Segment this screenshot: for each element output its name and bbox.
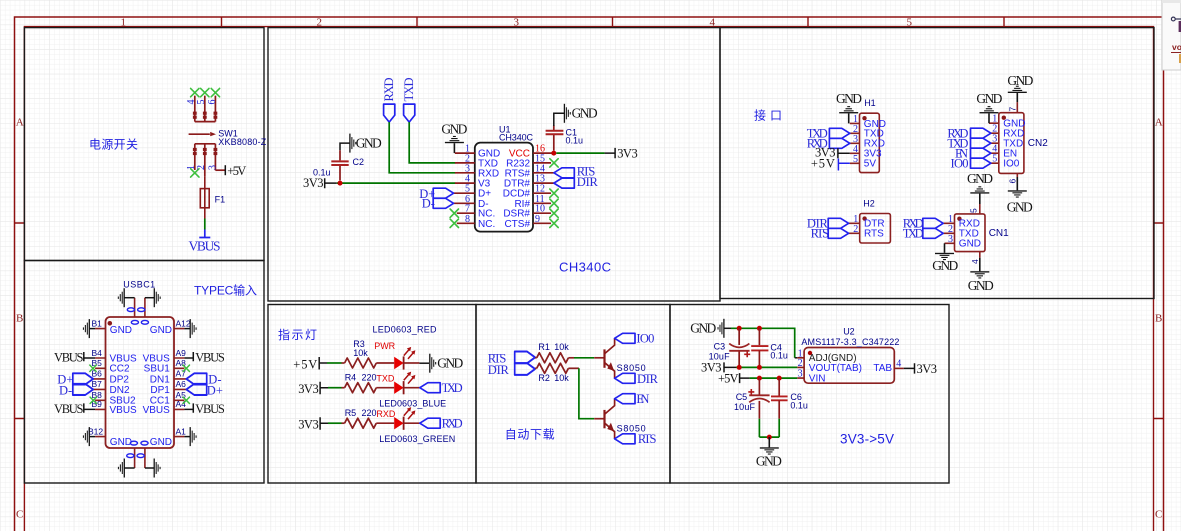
wire VCC to 3V3: [556, 152, 604, 154]
U1 left pin stubs: [454, 153, 475, 223]
svg-text:VIN: VIN: [809, 373, 826, 384]
switch pin 5 no-connect X: [201, 88, 209, 96]
right pin stubs: [174, 329, 186, 437]
port flag RXD at H1 pin3: [829, 138, 849, 148]
port flag IO0 at CN2 pin5: [971, 158, 991, 168]
block border TYPEC输入: [24, 261, 264, 484]
svg-text:VBUS: VBUS: [189, 239, 221, 254]
svg-text:B4: B4: [92, 348, 103, 358]
svg-text:TXD: TXD: [402, 78, 416, 102]
svg-text:GND: GND: [959, 239, 981, 250]
USBC1 bottom pad ovals: [127, 441, 148, 457]
CN2 pin1 dot: [1002, 116, 1006, 120]
resistor R5: [342, 422, 345, 424]
svg-text:F1: F1: [215, 195, 226, 205]
svg-text:CN1: CN1: [989, 228, 1009, 239]
ground flag B1: [83, 319, 90, 338]
svg-text:220: 220: [362, 408, 377, 418]
svg-text:+5V: +5V: [718, 371, 739, 385]
USBC1 top shield pins: [135, 298, 145, 317]
wire 3V3 to U1 pin4: [337, 182, 456, 184]
ground flag bottom-right: [154, 459, 161, 478]
svg-text:GND: GND: [836, 91, 862, 106]
port flag RTS at H2 pin2: [828, 228, 848, 238]
port flag RTS at U1 pin14: [554, 168, 574, 178]
svg-text:LED0603_BLUE: LED0603_BLUE: [379, 398, 446, 408]
CN2 top pin 7: [1016, 102, 1018, 113]
netlabel VBUS: [199, 230, 210, 238]
wire R4 to LED2: [376, 387, 394, 389]
svg-text:2: 2: [196, 165, 207, 170]
no-connect X A8: [183, 365, 189, 371]
H2 pin1 dot: [862, 216, 866, 220]
A1 wire to ground: [184, 436, 190, 438]
svg-text:3V3: 3V3: [298, 418, 319, 432]
wire TXD to U1 pin2: [409, 122, 455, 163]
svg-text:GND: GND: [110, 437, 132, 448]
capacitor C3 polarized: [738, 328, 740, 345]
no-connect X B5: [90, 365, 96, 371]
svg-text:CTS#: CTS#: [504, 219, 530, 230]
port flag EN at Q2 collector: [615, 394, 635, 404]
svg-text:VBUS: VBUS: [143, 405, 171, 416]
svg-text:3: 3: [514, 17, 520, 29]
junction C3 bottom: [737, 365, 742, 370]
netflag +5V: [224, 165, 226, 175]
svg-text:IO0: IO0: [1003, 159, 1020, 170]
block border 自动下载: [476, 305, 670, 484]
port flag D+ at B6: [73, 373, 93, 384]
port flag DTR at H2 pin1: [828, 218, 848, 228]
svg-text:GND: GND: [437, 356, 463, 371]
H2 pin stubs: [849, 223, 860, 233]
port flag RXD at CN1 pin1: [923, 218, 943, 228]
svg-text:VBUS: VBUS: [54, 402, 84, 416]
switch SW1 contact pads: [193, 112, 217, 155]
svg-text:AMS1117-3.3_C347222: AMS1117-3.3_C347222: [801, 337, 899, 347]
port flag TXD row2: [420, 383, 440, 393]
panel body: [1162, 0, 1181, 70]
svg-text:A: A: [1155, 117, 1163, 129]
svg-text:GND: GND: [690, 320, 716, 335]
panel icon circle-line: [1171, 17, 1175, 21]
svg-text:RXD: RXD: [376, 409, 396, 419]
svg-text:R4: R4: [345, 373, 357, 383]
frame zone ticks left: [15, 223, 25, 419]
wire R3 to LED1: [376, 362, 394, 364]
svg-text:XKB8080-Z: XKB8080-Z: [218, 137, 266, 147]
ground flag CN1 pin3: [935, 253, 954, 260]
svg-text:+5V: +5V: [811, 156, 835, 170]
wire R5 to LED3: [376, 422, 394, 424]
U1 right pin stubs: [533, 153, 554, 223]
wire F1 to VBUS: [204, 219, 206, 230]
netflag VBUS at A9: [184, 352, 193, 361]
ground flag top-right: [154, 288, 161, 307]
svg-text:8: 8: [465, 214, 470, 225]
resistor R1: [535, 357, 537, 359]
svg-text:IO0: IO0: [636, 332, 654, 346]
junction C6 top: [777, 376, 782, 381]
CN2 bottom pin 6: [1016, 173, 1018, 177]
svg-text:5: 5: [853, 154, 858, 165]
CN1 pin stubs: [943, 223, 954, 243]
resistor R4: [342, 387, 345, 389]
svg-text:GND: GND: [976, 91, 1002, 106]
netflag 3V3 right: [605, 148, 616, 158]
port flag D+ at A6: [186, 384, 206, 395]
svg-text:C: C: [16, 509, 23, 521]
svg-text:B1: B1: [92, 318, 103, 328]
svg-text:VBUS: VBUS: [54, 351, 84, 365]
svg-text:TXD: TXD: [376, 374, 395, 384]
no-connect X U1 pin8: [450, 219, 458, 227]
ground flag CN2 top: [1008, 86, 1027, 93]
netflag VBUS at A4: [184, 403, 193, 412]
svg-text:+5V: +5V: [293, 358, 317, 372]
CN2 pin stubs left: [989, 123, 999, 163]
svg-text:220: 220: [362, 373, 377, 383]
wire +5V to R3: [327, 362, 342, 364]
ground flag CN2 bottom: [1008, 190, 1027, 197]
svg-text:5V: 5V: [864, 159, 877, 170]
svg-text:DTR: DTR: [637, 372, 659, 386]
svg-text:DP2: DP2: [110, 374, 130, 385]
svg-text:D-: D-: [422, 196, 435, 210]
no-connect X B8: [90, 397, 96, 403]
svg-text:2: 2: [317, 17, 323, 29]
connector USBC1 body: [106, 317, 175, 448]
port flag IO0 at Q1 collector: [615, 333, 635, 343]
wire top-right shield to gnd: [145, 297, 154, 299]
port flag RXD at CN2 pin2: [971, 128, 991, 138]
regulator U2 body: [804, 348, 894, 384]
svg-text:3V3: 3V3: [617, 146, 638, 160]
svg-text:RTS: RTS: [864, 229, 884, 240]
svg-text:LED0603_GREEN: LED0603_GREEN: [379, 434, 455, 444]
LED1 red: [394, 347, 415, 370]
svg-text:5: 5: [992, 154, 997, 165]
netflag VBUS at B4: [84, 352, 95, 361]
wire bottom-right shield to gnd: [145, 467, 154, 469]
transistor Q2 S8050: [605, 399, 615, 439]
USBC1 pin1 dot: [108, 321, 113, 326]
svg-text:4: 4: [896, 359, 901, 370]
svg-text:5: 5: [907, 17, 913, 29]
svg-text:GND: GND: [967, 171, 993, 186]
svg-text:1: 1: [121, 17, 127, 29]
svg-text:C5: C5: [736, 392, 748, 402]
svg-text:GND: GND: [441, 122, 467, 137]
port flag D- at A7: [186, 373, 206, 384]
wire bottom gnd rail: [759, 436, 779, 438]
svg-text:指示灯: 指示灯: [278, 327, 317, 342]
svg-text:D+: D+: [207, 383, 223, 397]
svg-text:3: 3: [948, 234, 953, 245]
svg-text:A12: A12: [176, 318, 191, 328]
svg-text:3V3: 3V3: [298, 382, 319, 396]
svg-text:GND: GND: [968, 278, 994, 293]
wire LED1 to ground: [404, 362, 420, 364]
switch SW1: [189, 96, 226, 177]
switch pin 4 no-connect X: [191, 88, 199, 96]
svg-text:A: A: [16, 117, 24, 129]
svg-text:5: 5: [969, 208, 979, 213]
capacitor C4: [758, 328, 760, 345]
svg-text:3: 3: [207, 165, 218, 170]
wire 3V3 row to U2 pin2: [736, 366, 797, 368]
junction C3 top: [737, 326, 742, 331]
svg-text:0.1u: 0.1u: [566, 135, 584, 145]
svg-text:C2: C2: [353, 157, 365, 167]
IC U1 body: [475, 143, 533, 232]
no-connect X U1 pin15: [550, 159, 558, 167]
CN1 pin1 dot: [957, 217, 961, 221]
svg-text:DTR: DTR: [488, 363, 510, 377]
svg-text:C3: C3: [714, 342, 726, 352]
wire gnd top rail: [731, 328, 795, 358]
svg-text:GND: GND: [1007, 73, 1033, 88]
junction C4 bottom: [757, 365, 762, 370]
frame zone ticks top: [222, 17, 1005, 27]
svg-text:B12: B12: [88, 426, 103, 436]
svg-text:PWR: PWR: [374, 341, 395, 351]
CN1 bottom pin 4: [979, 252, 981, 258]
svg-text:CH340C: CH340C: [499, 132, 534, 142]
block border CH340C: [268, 28, 720, 301]
svg-text:B5: B5: [92, 358, 103, 368]
capacitor C1: [553, 125, 555, 150]
port flag TXD at CN2 pin3: [971, 138, 991, 148]
wire RXD to U1 pin3: [389, 122, 455, 173]
wire R2 to Q2 base: [568, 367, 579, 369]
svg-text:GND: GND: [150, 437, 172, 448]
LED2 blue: [394, 372, 415, 395]
svg-text:10uF: 10uF: [734, 402, 756, 412]
port flag RXD vertical: [384, 104, 395, 122]
block border 指示灯: [268, 305, 476, 484]
svg-text:3V3->5V: 3V3->5V: [840, 432, 894, 447]
svg-text:RTS: RTS: [811, 227, 830, 241]
port flag D+ at U1 pin5: [433, 188, 453, 198]
svg-text:GND: GND: [572, 105, 598, 120]
svg-text:H2: H2: [863, 198, 875, 208]
block border 3V3转5V: [670, 305, 949, 484]
svg-text:TAB: TAB: [873, 363, 892, 374]
svg-text:电源开关: 电源开关: [89, 138, 138, 152]
svg-text:10k: 10k: [353, 348, 368, 358]
wire LED3 to RXD flag: [404, 422, 420, 424]
svg-text:GND: GND: [756, 454, 782, 469]
svg-text:7: 7: [1008, 107, 1018, 112]
svg-text:自动下载: 自动下载: [505, 428, 555, 442]
wire LED2 to TXD flag: [404, 387, 420, 389]
ground flag CN1 top: [970, 186, 989, 193]
svg-text:GND: GND: [932, 258, 958, 273]
junction C4 top: [757, 326, 762, 331]
svg-text:9: 9: [535, 214, 540, 225]
left pin stubs: [93, 329, 105, 437]
wire R1 to Q1 base: [568, 357, 574, 359]
netflag VBUS at B9: [84, 403, 95, 412]
no-connect X U1 pin9: [550, 219, 558, 227]
B1 wire to ground: [89, 328, 95, 330]
svg-text:GND: GND: [356, 136, 382, 151]
svg-text:SBU1: SBU1: [144, 364, 171, 375]
ground flag A1: [190, 427, 197, 446]
svg-text:2: 2: [853, 224, 858, 235]
svg-text:TXD: TXD: [903, 227, 924, 241]
no-connect X A5: [183, 397, 189, 403]
U2 pin1 dot: [808, 351, 812, 355]
svg-text:D-: D-: [59, 383, 72, 397]
ground flag B12: [83, 427, 90, 446]
svg-text:TXD: TXD: [442, 381, 463, 395]
svg-text:R2: R2: [538, 373, 550, 383]
LED3 green: [394, 407, 415, 430]
svg-text:10k: 10k: [554, 373, 569, 383]
svg-text:DN2: DN2: [110, 385, 130, 396]
svg-text:USBC1: USBC1: [123, 280, 155, 290]
svg-text:3V3: 3V3: [917, 362, 938, 376]
svg-text:5: 5: [196, 100, 207, 105]
svg-text:VBUS: VBUS: [110, 405, 138, 416]
svg-text:GND: GND: [1007, 199, 1033, 214]
junction C5 top: [757, 376, 762, 381]
A12 wire to ground: [184, 328, 190, 330]
port flag TXD vertical: [404, 104, 415, 122]
svg-text:RTS: RTS: [638, 432, 657, 446]
transistor Q1 S8050: [605, 338, 615, 378]
no-connect X U1 pin7: [450, 209, 458, 217]
svg-text:EN: EN: [636, 392, 649, 406]
capacitor C5 polarized: [758, 378, 760, 395]
ground flag top-left: [118, 288, 125, 307]
resistor R2: [535, 367, 537, 369]
svg-text:B7: B7: [92, 379, 103, 389]
ground flag bottom-left: [118, 459, 125, 478]
svg-text:4: 4: [970, 259, 980, 264]
svg-text:DTR: DTR: [577, 175, 599, 189]
port flag DTR at Q1 emitter: [615, 373, 635, 383]
svg-text:A4: A4: [176, 399, 187, 409]
ground flag bottom: [768, 437, 770, 447]
wire 3V3 to R4: [328, 387, 342, 389]
svg-text:vo: vo: [1172, 42, 1181, 52]
junction at C2 bottom: [338, 181, 343, 186]
junction at U1 VCC: [551, 151, 556, 156]
svg-text:A6: A6: [176, 379, 187, 389]
capacitor C2: [340, 143, 350, 150]
svg-text:3V3: 3V3: [303, 176, 324, 190]
svg-text:3: 3: [798, 369, 803, 380]
frame zone ticks right: [1154, 223, 1164, 419]
svg-text:IO0: IO0: [951, 157, 969, 171]
U2 pin stubs: [797, 358, 804, 378]
header H2 body: [860, 214, 891, 244]
fuse F1: [200, 176, 209, 218]
netflag 3V3 right: [904, 363, 915, 373]
CN1 pin3 wire to ground: [944, 243, 946, 253]
header H1 body: [860, 113, 880, 172]
USBC1 bottom shield pins: [135, 448, 145, 468]
svg-text:RXD: RXD: [382, 78, 396, 102]
svg-text:TYPEC输入: TYPEC输入: [194, 283, 257, 298]
port flag D- at B7: [73, 384, 93, 395]
svg-text:C: C: [1155, 509, 1162, 521]
port flag EN at CN2 pin4: [971, 148, 991, 158]
svg-text:B: B: [1155, 313, 1162, 325]
CN1 top pin 5: [979, 204, 981, 214]
svg-text:H1: H1: [864, 98, 876, 108]
switch pin 6 no-connect X: [211, 88, 219, 96]
svg-text:U2: U2: [843, 327, 855, 337]
svg-text:2: 2: [798, 358, 803, 369]
svg-text:CC2: CC2: [110, 364, 130, 375]
svg-text:B: B: [16, 313, 23, 325]
svg-text:0.1u: 0.1u: [790, 400, 808, 410]
port flag TXD at CN1 pin2: [923, 228, 943, 238]
svg-text:A1: A1: [176, 426, 187, 436]
U2 pin4 TAB: [894, 367, 903, 369]
ground flag row1: [429, 354, 436, 373]
no-connect X U1 pin12: [550, 189, 558, 197]
svg-text:DP1: DP1: [150, 385, 170, 396]
USBC1 top pad ovals: [127, 308, 148, 324]
resistor R3: [342, 362, 345, 364]
junction bottom gnd: [767, 435, 772, 440]
svg-text:A9: A9: [176, 348, 187, 358]
wire top-left shield to gnd: [124, 297, 134, 299]
svg-text:VBUS: VBUS: [195, 351, 225, 365]
port flag DTR at U1 pin13: [554, 178, 574, 188]
port flag RXD row3: [420, 418, 440, 428]
connector CN2 body: [999, 113, 1024, 174]
H1 pin stubs: [850, 123, 860, 163]
svg-text:CH340C: CH340C: [559, 260, 611, 275]
ground flag A12: [190, 319, 197, 338]
wire +5V row to U2 pin3: [750, 377, 798, 379]
svg-text:+5V: +5V: [227, 164, 246, 178]
svg-text:R5: R5: [345, 408, 357, 418]
ground flag CN1 bottom: [970, 271, 989, 278]
svg-text:GND: GND: [110, 325, 132, 336]
svg-text:4: 4: [710, 17, 716, 29]
svg-text:R1: R1: [538, 342, 550, 352]
svg-text:10k: 10k: [554, 342, 569, 352]
H1 pin1 dot: [862, 116, 866, 120]
switch pin 1 no-connect X: [191, 169, 199, 177]
svg-text:DN1: DN1: [150, 374, 170, 385]
block border 电源开关: [24, 28, 264, 261]
svg-text:6: 6: [1008, 179, 1018, 184]
no-connect X U1 pin11: [550, 199, 558, 207]
svg-text:B6: B6: [92, 369, 103, 379]
svg-text:VBUS: VBUS: [195, 402, 225, 416]
B12 wire to ground: [89, 436, 95, 438]
port flag RTS at Q2 emitter: [615, 434, 635, 444]
wire bottom-left shield to gnd: [124, 467, 134, 469]
svg-text:6: 6: [207, 100, 218, 105]
svg-text:RXD: RXD: [442, 417, 463, 431]
block border 接口: [720, 28, 1154, 299]
svg-text:0.1u: 0.1u: [770, 351, 788, 361]
port flag D- at U1 pin6: [433, 198, 453, 208]
svg-text:LED0603_RED: LED0603_RED: [373, 324, 438, 334]
no-connect X U1 pin10: [550, 209, 558, 217]
capacitor C6: [778, 378, 780, 396]
port flag TXD at H1 pin2: [829, 128, 849, 138]
